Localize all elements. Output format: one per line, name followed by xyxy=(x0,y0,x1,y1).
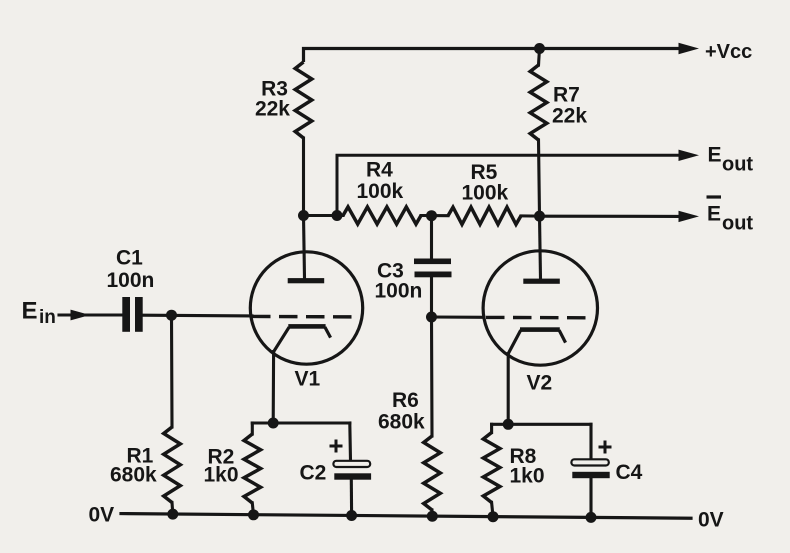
Ein arrowhead xyxy=(71,310,91,321)
wire 0V rail xyxy=(121,514,691,519)
svg-text:V1: V1 xyxy=(295,368,321,391)
Eout arrowhead xyxy=(679,150,700,161)
svg-text:R5: R5 xyxy=(471,161,498,184)
resistor R4 xyxy=(343,207,421,224)
node R6/0V xyxy=(427,511,438,522)
valve V2 envelope xyxy=(483,251,597,365)
node C4/0V xyxy=(586,512,597,523)
svg-text:22k: 22k xyxy=(552,105,587,128)
resistor R6 xyxy=(430,317,434,436)
resistor R1 xyxy=(170,315,174,427)
label R3 22k xyxy=(255,78,290,121)
V2 anode xyxy=(523,279,560,284)
node Ein/R1 xyxy=(166,310,177,321)
valve V1 envelope xyxy=(250,252,362,364)
label C1 100n xyxy=(107,246,155,292)
wire R4-C3 node xyxy=(421,214,448,217)
svg-text:E: E xyxy=(22,297,38,324)
node R2/0V xyxy=(248,509,259,520)
V1 cathode xyxy=(288,324,325,329)
resistor R5 xyxy=(448,207,521,224)
svg-text:100n: 100n xyxy=(375,280,423,303)
wire V2 cathode row xyxy=(492,423,591,426)
svg-text:22k: 22k xyxy=(255,98,290,121)
svg-text:E: E xyxy=(708,143,722,166)
label R4 100k xyxy=(357,158,404,203)
V1 anode lead xyxy=(304,216,305,279)
svg-text:0V: 0V xyxy=(698,508,724,531)
svg-text:C2: C2 xyxy=(300,461,327,484)
label R2 1k0 xyxy=(204,445,239,486)
svg-text:+Vcc: +Vcc xyxy=(705,41,752,63)
node R8/0V xyxy=(488,511,499,522)
wire +Vcc rail xyxy=(304,49,680,63)
svg-text:out: out xyxy=(722,213,753,235)
V1 cathode lead xyxy=(272,352,275,423)
V2 cathode xyxy=(520,327,560,332)
wire R5-R7 xyxy=(521,214,540,217)
svg-text:680k: 680k xyxy=(378,411,425,434)
label R6 680k xyxy=(378,389,425,434)
wire Ein xyxy=(59,313,122,316)
resistor R7 xyxy=(539,49,540,66)
wire C1 to grid xyxy=(143,314,252,318)
Ebar-out arrowhead xyxy=(679,211,700,222)
node C3 top xyxy=(426,210,437,221)
node Eout riser xyxy=(332,210,343,221)
V1 grid (dashed) xyxy=(252,315,356,319)
resistor R2 xyxy=(251,423,254,434)
label C4 plus xyxy=(599,441,612,454)
svg-text:E: E xyxy=(707,202,721,225)
capacitor C1 xyxy=(122,297,130,332)
svg-text:R6: R6 xyxy=(392,389,419,412)
V2 cathode lead xyxy=(507,354,510,425)
svg-text:in: in xyxy=(39,307,56,328)
V2 grid (dashed) xyxy=(486,316,589,320)
node V1 cathode xyxy=(268,418,279,429)
wire Ebar-out xyxy=(540,215,680,218)
svg-text:C1: C1 xyxy=(116,246,143,269)
wire anode row left xyxy=(304,214,344,217)
svg-text:R7: R7 xyxy=(553,84,580,107)
node R1/0V xyxy=(167,509,178,520)
node V2 cathode xyxy=(503,419,514,430)
node R3/anode xyxy=(298,210,309,221)
label Eout xyxy=(708,143,754,175)
resistor R8 xyxy=(490,424,493,432)
V2 anode lead xyxy=(540,216,541,278)
node R7/V2 anode xyxy=(534,211,545,222)
svg-text:out: out xyxy=(722,154,753,176)
label R5 100k xyxy=(462,161,509,205)
svg-text:R4: R4 xyxy=(366,158,393,181)
svg-text:100n: 100n xyxy=(107,269,155,292)
node C2/0V xyxy=(346,510,357,521)
V1 anode xyxy=(288,278,325,283)
label R1 680k xyxy=(110,444,157,486)
svg-text:0V: 0V xyxy=(89,503,115,526)
svg-text:680k: 680k xyxy=(110,463,157,486)
label Ein xyxy=(22,297,56,328)
label C2 plus xyxy=(330,440,343,453)
svg-text:1k0: 1k0 xyxy=(510,465,545,488)
label R7 22k xyxy=(552,84,587,128)
wire Eout xyxy=(337,155,679,215)
label C3 100n xyxy=(375,259,423,302)
+Vcc arrowhead xyxy=(679,43,700,54)
svg-text:100k: 100k xyxy=(462,182,509,205)
resistor R3 xyxy=(295,62,312,138)
V2 grid wire xyxy=(432,315,485,318)
svg-text:C4: C4 xyxy=(616,461,643,484)
capacitor C3 xyxy=(430,216,433,259)
label R8 1k0 xyxy=(510,445,545,488)
capacitor C4 xyxy=(589,424,592,459)
node C3 bottom / V2 grid xyxy=(426,312,437,323)
node top-rail/R7 xyxy=(534,43,545,54)
svg-text:100k: 100k xyxy=(357,180,404,203)
wire V1 cathode row xyxy=(252,421,349,424)
svg-text:V2: V2 xyxy=(527,372,553,395)
capacitor C2 xyxy=(348,423,352,461)
svg-text:1k0: 1k0 xyxy=(204,463,239,486)
label Ebar-out xyxy=(707,197,754,235)
